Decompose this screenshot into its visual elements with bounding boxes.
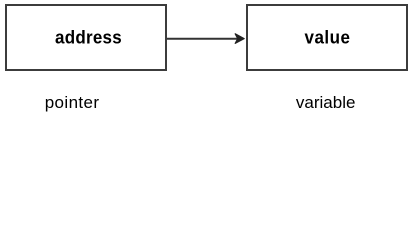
- label value: [305, 28, 351, 47]
- wire: arrow shaft: [167, 38, 239, 40]
- arrow from pointer box to variable box: [0, 0, 412, 116]
- label variable: [296, 94, 356, 111]
- label pointer: [45, 94, 100, 111]
- arrowhead: [235, 34, 244, 44]
- box "address" (pointer): [5, 4, 168, 72]
- box "value" (variable): [246, 4, 408, 72]
- label address: [55, 28, 122, 47]
